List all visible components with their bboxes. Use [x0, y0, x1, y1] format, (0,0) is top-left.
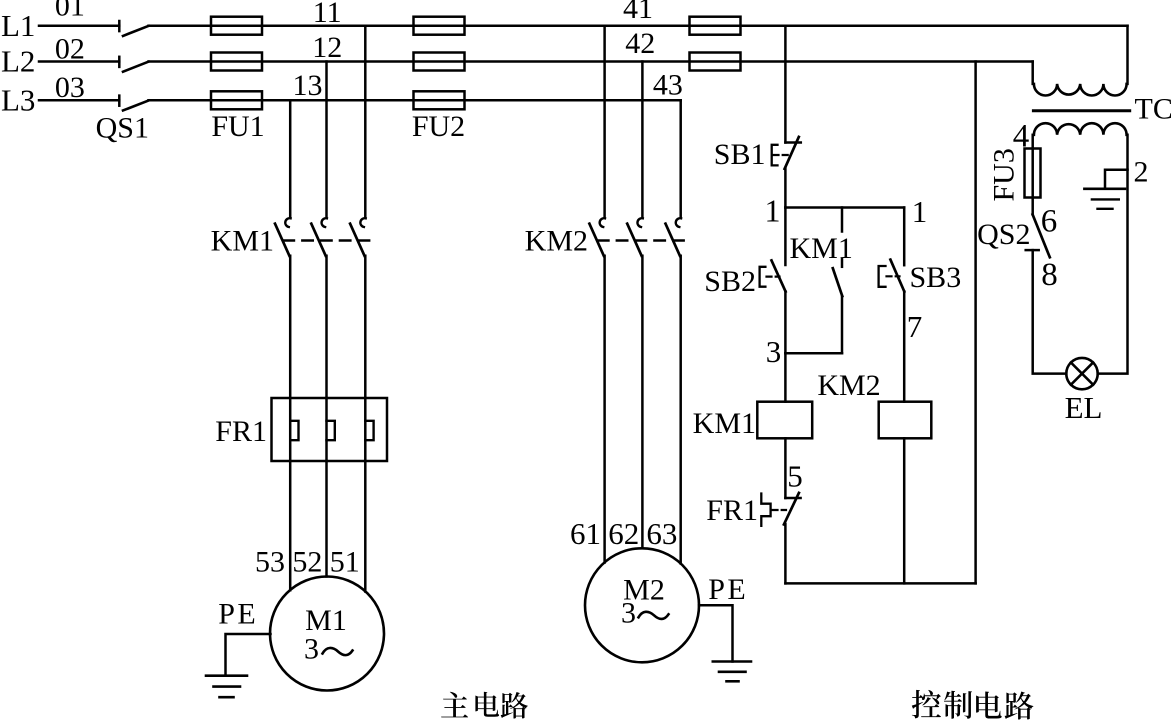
svg-text:13: 13: [293, 69, 323, 102]
contactor KM1 auxiliary contact blade: [833, 268, 843, 296]
wire KM2 contact to M2 phase a: [603, 256, 606, 563]
svg-text:01: 01: [55, 0, 85, 22]
contact fixed-end circle at x=365.3: [360, 218, 365, 227]
svg-text:L2: L2: [1, 44, 35, 79]
pushbutton SB3 blade: [890, 260, 904, 292]
ground symbol at node 2: [1084, 188, 1125, 191]
wire KM1 contact to FR1 at x=365.3: [364, 256, 367, 398]
wire L1 bus after QS1: [149, 24, 1128, 27]
wire KM1 aux branch upper: [841, 208, 844, 232]
svg-text:L1: L1: [1, 8, 35, 43]
svg-text:6: 6: [1041, 203, 1058, 239]
pushbutton SB3 actuator dashed link: [887, 275, 900, 277]
motor M1 tilde: [323, 648, 353, 655]
svg-text:QS1: QS1: [96, 112, 149, 145]
ground symbol at M2: [713, 660, 751, 663]
ground symbol at M1: [206, 674, 247, 677]
wire QS2 to lamp EL: [1033, 250, 1067, 374]
pushbutton SB1 blade: [785, 137, 799, 169]
wire drop at x=326.5: [325, 62, 328, 218]
contact blade at x=290.2: [275, 224, 289, 256]
wire FR1 to M1 phase c: [364, 461, 367, 592]
svg-text:5: 5: [787, 459, 803, 494]
svg-text:KM1: KM1: [790, 232, 853, 265]
svg-text:FU2: FU2: [412, 110, 465, 143]
transformer TC primary lead-in: [1031, 62, 1034, 84]
wire rail node1 to SB2: [784, 208, 787, 266]
motor M2 tilde: [639, 612, 669, 619]
node 1 bus: [785, 206, 904, 209]
fuse FU1 element 1: [211, 17, 262, 35]
fuse control-circuit element 1: [690, 17, 741, 35]
lamp EL circle: [1066, 358, 1097, 389]
svg-text:42: 42: [625, 27, 655, 60]
svg-text:3: 3: [621, 596, 636, 629]
contact blade at x=365.3: [350, 224, 364, 256]
svg-text:11: 11: [313, 0, 342, 29]
wire through FU3: [1031, 149, 1034, 215]
svg-text:3: 3: [304, 633, 319, 666]
svg-text:PE: PE: [708, 573, 748, 606]
pushbutton SB1 NC contact seat: [785, 141, 800, 144]
contactor KM2 main contacts linkage dashes: [598, 239, 686, 241]
thermal relay FR1 heater element at x=365.3: [364, 398, 367, 461]
transformer TC secondary winding: [1034, 123, 1127, 135]
svg-text:KM2: KM2: [525, 225, 588, 258]
svg-text:L3: L3: [1, 83, 35, 118]
fuse control-circuit element 2: [690, 53, 741, 71]
svg-text:8: 8: [1041, 257, 1058, 293]
pushbutton SB2 actuator: [760, 267, 766, 287]
wire L1 incoming segment: [39, 24, 119, 27]
transformer TC primary winding: [1034, 84, 1127, 96]
wire SB2 to node 3: [784, 291, 787, 353]
svg-text:52: 52: [292, 546, 322, 579]
transformer TC core bar: [1033, 109, 1129, 112]
wire SB3 branch upper: [903, 208, 906, 266]
switch QS2 blade: [1033, 215, 1050, 258]
contact blade at x=326.5: [311, 224, 325, 256]
fuse FU1 element 3: [211, 91, 262, 109]
motor M1 circle: [270, 577, 384, 691]
svg-text:1: 1: [765, 193, 781, 229]
transformer TC primary right lead to L1: [1126, 26, 1129, 84]
wire M2 PE connection: [699, 605, 733, 661]
switch QS1 pole L2 blade: [123, 62, 149, 72]
svg-text:KM1: KM1: [211, 225, 274, 258]
pushbutton SB2 actuator dashed link: [767, 276, 780, 278]
pushbutton SB1 actuator dashed link: [774, 154, 791, 156]
wire KM2 contact to M2 phase c: [679, 256, 682, 564]
switch QS1 pole L3 blade: [123, 101, 149, 111]
contact fixed-end circle at x=326.5: [322, 218, 327, 227]
svg-text:PE: PE: [218, 598, 258, 631]
thermal relay FR1 heater element at x=326.5: [325, 398, 328, 461]
wire FR1 to M1 phase b: [325, 461, 328, 577]
svg-text:2: 2: [1134, 155, 1149, 188]
switch QS1 pole L1 blade: [123, 26, 149, 36]
wire KM2 contact to M2 phase b: [641, 256, 644, 549]
svg-text:FR1: FR1: [706, 494, 758, 527]
wire KM1 aux branch lower: [841, 296, 844, 353]
caption main circuit (zhu dian lu): [441, 692, 468, 718]
svg-text:41: 41: [623, 0, 653, 25]
contact fixed-end circle at x=680.7: [676, 218, 681, 227]
wire M1 PE connection: [226, 634, 271, 675]
wire drop at x=642.4: [641, 62, 644, 218]
svg-text:03: 03: [55, 71, 85, 104]
wire control left rail from L1: [784, 26, 787, 143]
contact blade at x=642.4: [627, 224, 641, 256]
contact fixed-end circle at x=290.2: [285, 218, 290, 227]
thermal relay FR1 actuator dashed link: [773, 509, 787, 511]
wire TC secondary left to FU3: [1031, 135, 1034, 149]
thermal relay FR1 actuator: [761, 494, 770, 526]
wire KM2 coil to bottom bus: [903, 438, 906, 583]
wire FR1 to M1 phase a: [289, 461, 292, 590]
svg-text:61: 61: [570, 516, 601, 551]
contact fixed-end circle at x=642.4: [637, 218, 642, 227]
svg-text:KM2: KM2: [817, 369, 880, 402]
coil KM1 rectangle: [757, 402, 812, 439]
svg-text:63: 63: [646, 516, 677, 551]
wire drop at x=604.6: [603, 26, 606, 218]
svg-text:3: 3: [766, 334, 782, 369]
pushbutton SB1 actuator: [772, 145, 778, 166]
switch QS1 pole L1 fixed contact tick: [118, 21, 121, 31]
wire FR1 contact to bottom bus: [784, 524, 787, 583]
wire drop at x=365.3: [364, 26, 367, 218]
svg-text:43: 43: [653, 69, 683, 102]
node 3 bus: [785, 352, 842, 355]
svg-text:02: 02: [55, 32, 85, 65]
svg-text:51: 51: [330, 546, 360, 579]
svg-text:QS2: QS2: [977, 218, 1030, 251]
switch QS2 lower contact seat: [1026, 249, 1039, 252]
svg-text:7: 7: [907, 309, 923, 344]
wire KM1 coil to node 5: [784, 438, 787, 498]
pushbutton SB2 blade: [772, 260, 786, 291]
contact blade at x=680.7: [666, 224, 680, 256]
fuse FU2 element 2: [414, 53, 465, 71]
contact fixed-end circle at x=604.6: [600, 218, 605, 227]
wire node3 to KM1 coil: [784, 353, 787, 402]
svg-text:SB1: SB1: [714, 138, 766, 171]
svg-text:EL: EL: [1065, 390, 1103, 425]
svg-text:FU3: FU3: [988, 148, 1021, 201]
fuse FU2 element 1: [414, 17, 465, 35]
svg-text:SB2: SB2: [704, 265, 756, 298]
wire KM1 contact to FR1 at x=290.2: [289, 256, 292, 398]
wire KM1 aux stub above blade: [841, 259, 844, 267]
wire drop at x=290.2: [289, 100, 292, 218]
pushbutton SB3 actuator: [879, 266, 886, 287]
svg-text:KM1: KM1: [693, 407, 756, 440]
thermal relay FR1 heater box: [272, 398, 388, 461]
switch QS1 pole L3 fixed contact tick: [118, 96, 121, 106]
svg-text:FR1: FR1: [215, 415, 267, 448]
contactor KM1 main contacts linkage dashes: [284, 239, 372, 241]
wire control right rail from L2: [974, 62, 977, 584]
wire SB1 to node 1: [784, 168, 787, 207]
svg-text:53: 53: [255, 546, 285, 579]
svg-text:12: 12: [312, 31, 342, 64]
wire L2 incoming segment: [39, 60, 119, 63]
wire node 2 ground step: [1105, 170, 1128, 189]
wire SB3 to KM2 coil, node 7: [903, 291, 906, 401]
svg-text:FU1: FU1: [211, 110, 264, 143]
motor M2 circle: [585, 548, 699, 662]
wire lamp EL to TC secondary right: [1098, 135, 1128, 374]
switch QS1 pole L2 fixed contact tick: [118, 57, 121, 67]
wire L3 bus after QS1: [149, 99, 681, 102]
coil KM2 rectangle: [879, 402, 932, 439]
svg-text:TC: TC: [1135, 93, 1171, 126]
wire L3 incoming segment: [39, 99, 119, 102]
caption control circuit (kong zhi dian lu): [912, 690, 941, 718]
wire L2 bus after QS1: [149, 60, 1033, 63]
lamp EL cross: [1071, 363, 1093, 385]
fuse FU2 element 3: [414, 91, 465, 109]
svg-text:1: 1: [912, 194, 928, 229]
wire drop at x=680.7: [679, 100, 682, 218]
fuse FU3 body: [1025, 149, 1041, 198]
svg-text:SB3: SB3: [910, 261, 962, 294]
wire KM1 contact to FR1 at x=326.5: [325, 256, 328, 398]
fuse FU1 element 2: [211, 53, 262, 71]
thermal relay FR1 NC contact seat: [785, 497, 800, 500]
contact blade at x=604.6: [589, 224, 603, 256]
svg-text:62: 62: [608, 516, 639, 551]
thermal relay FR1 heater element at x=290.2: [289, 398, 292, 461]
control circuit bottom bus: [785, 582, 975, 585]
thermal relay FR1 contact blade: [784, 493, 799, 525]
